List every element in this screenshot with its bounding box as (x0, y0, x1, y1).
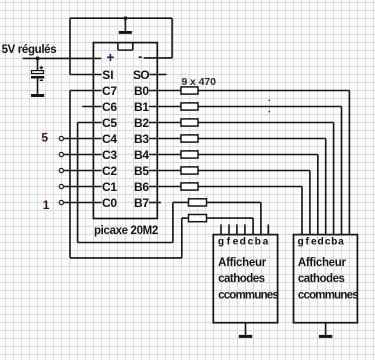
svg-text:ccommunes: ccommunes (218, 289, 278, 301)
svg-text:f: f (305, 237, 309, 248)
svg-text:SI: SI (102, 68, 113, 82)
svg-text:C6: C6 (102, 100, 117, 114)
svg-text:B7: B7 (134, 196, 149, 210)
svg-text:C5: C5 (102, 116, 117, 130)
svg-text:C2: C2 (102, 164, 117, 178)
svg-text:e: e (233, 237, 239, 248)
svg-text:-: - (138, 49, 143, 64)
svg-text:B6: B6 (134, 180, 149, 194)
svg-text:B1: B1 (134, 100, 149, 114)
svg-text:5V régulés: 5V régulés (2, 44, 57, 56)
svg-text:9 x 470: 9 x 470 (182, 76, 217, 88)
svg-text:d: d (240, 237, 246, 248)
svg-text:e: e (311, 237, 317, 248)
svg-text:Afficheur: Afficheur (298, 257, 347, 269)
svg-text:cathodes: cathodes (218, 273, 265, 285)
svg-text:C7: C7 (102, 84, 117, 98)
svg-text:C0: C0 (102, 196, 117, 210)
svg-text:Afficheur: Afficheur (218, 257, 267, 269)
svg-text:1: 1 (43, 198, 50, 212)
svg-text:c: c (325, 237, 331, 248)
svg-text:B0: B0 (134, 84, 149, 98)
svg-text:B2: B2 (134, 116, 149, 130)
svg-text:b: b (331, 237, 337, 248)
svg-text:5: 5 (41, 131, 48, 145)
svg-text:g: g (297, 237, 303, 248)
svg-text:C3: C3 (102, 148, 117, 162)
svg-text:B5: B5 (134, 164, 149, 178)
svg-text:B3: B3 (134, 132, 149, 146)
svg-text:b: b (255, 237, 261, 248)
svg-text:picaxe 20M2: picaxe 20M2 (94, 225, 158, 237)
svg-text:f: f (227, 237, 231, 248)
svg-text:a: a (338, 237, 344, 248)
svg-text:B4: B4 (134, 148, 149, 162)
svg-text:ccommunes: ccommunes (298, 289, 358, 301)
svg-text:C4: C4 (102, 132, 117, 146)
svg-text:C1: C1 (102, 180, 117, 194)
svg-text:d: d (317, 237, 323, 248)
svg-text:+: + (106, 50, 114, 65)
svg-text:c: c (248, 237, 254, 248)
svg-text:SO: SO (133, 68, 149, 82)
svg-text:cathodes: cathodes (298, 273, 345, 285)
svg-text:g: g (218, 237, 224, 248)
svg-text:a: a (263, 237, 269, 248)
